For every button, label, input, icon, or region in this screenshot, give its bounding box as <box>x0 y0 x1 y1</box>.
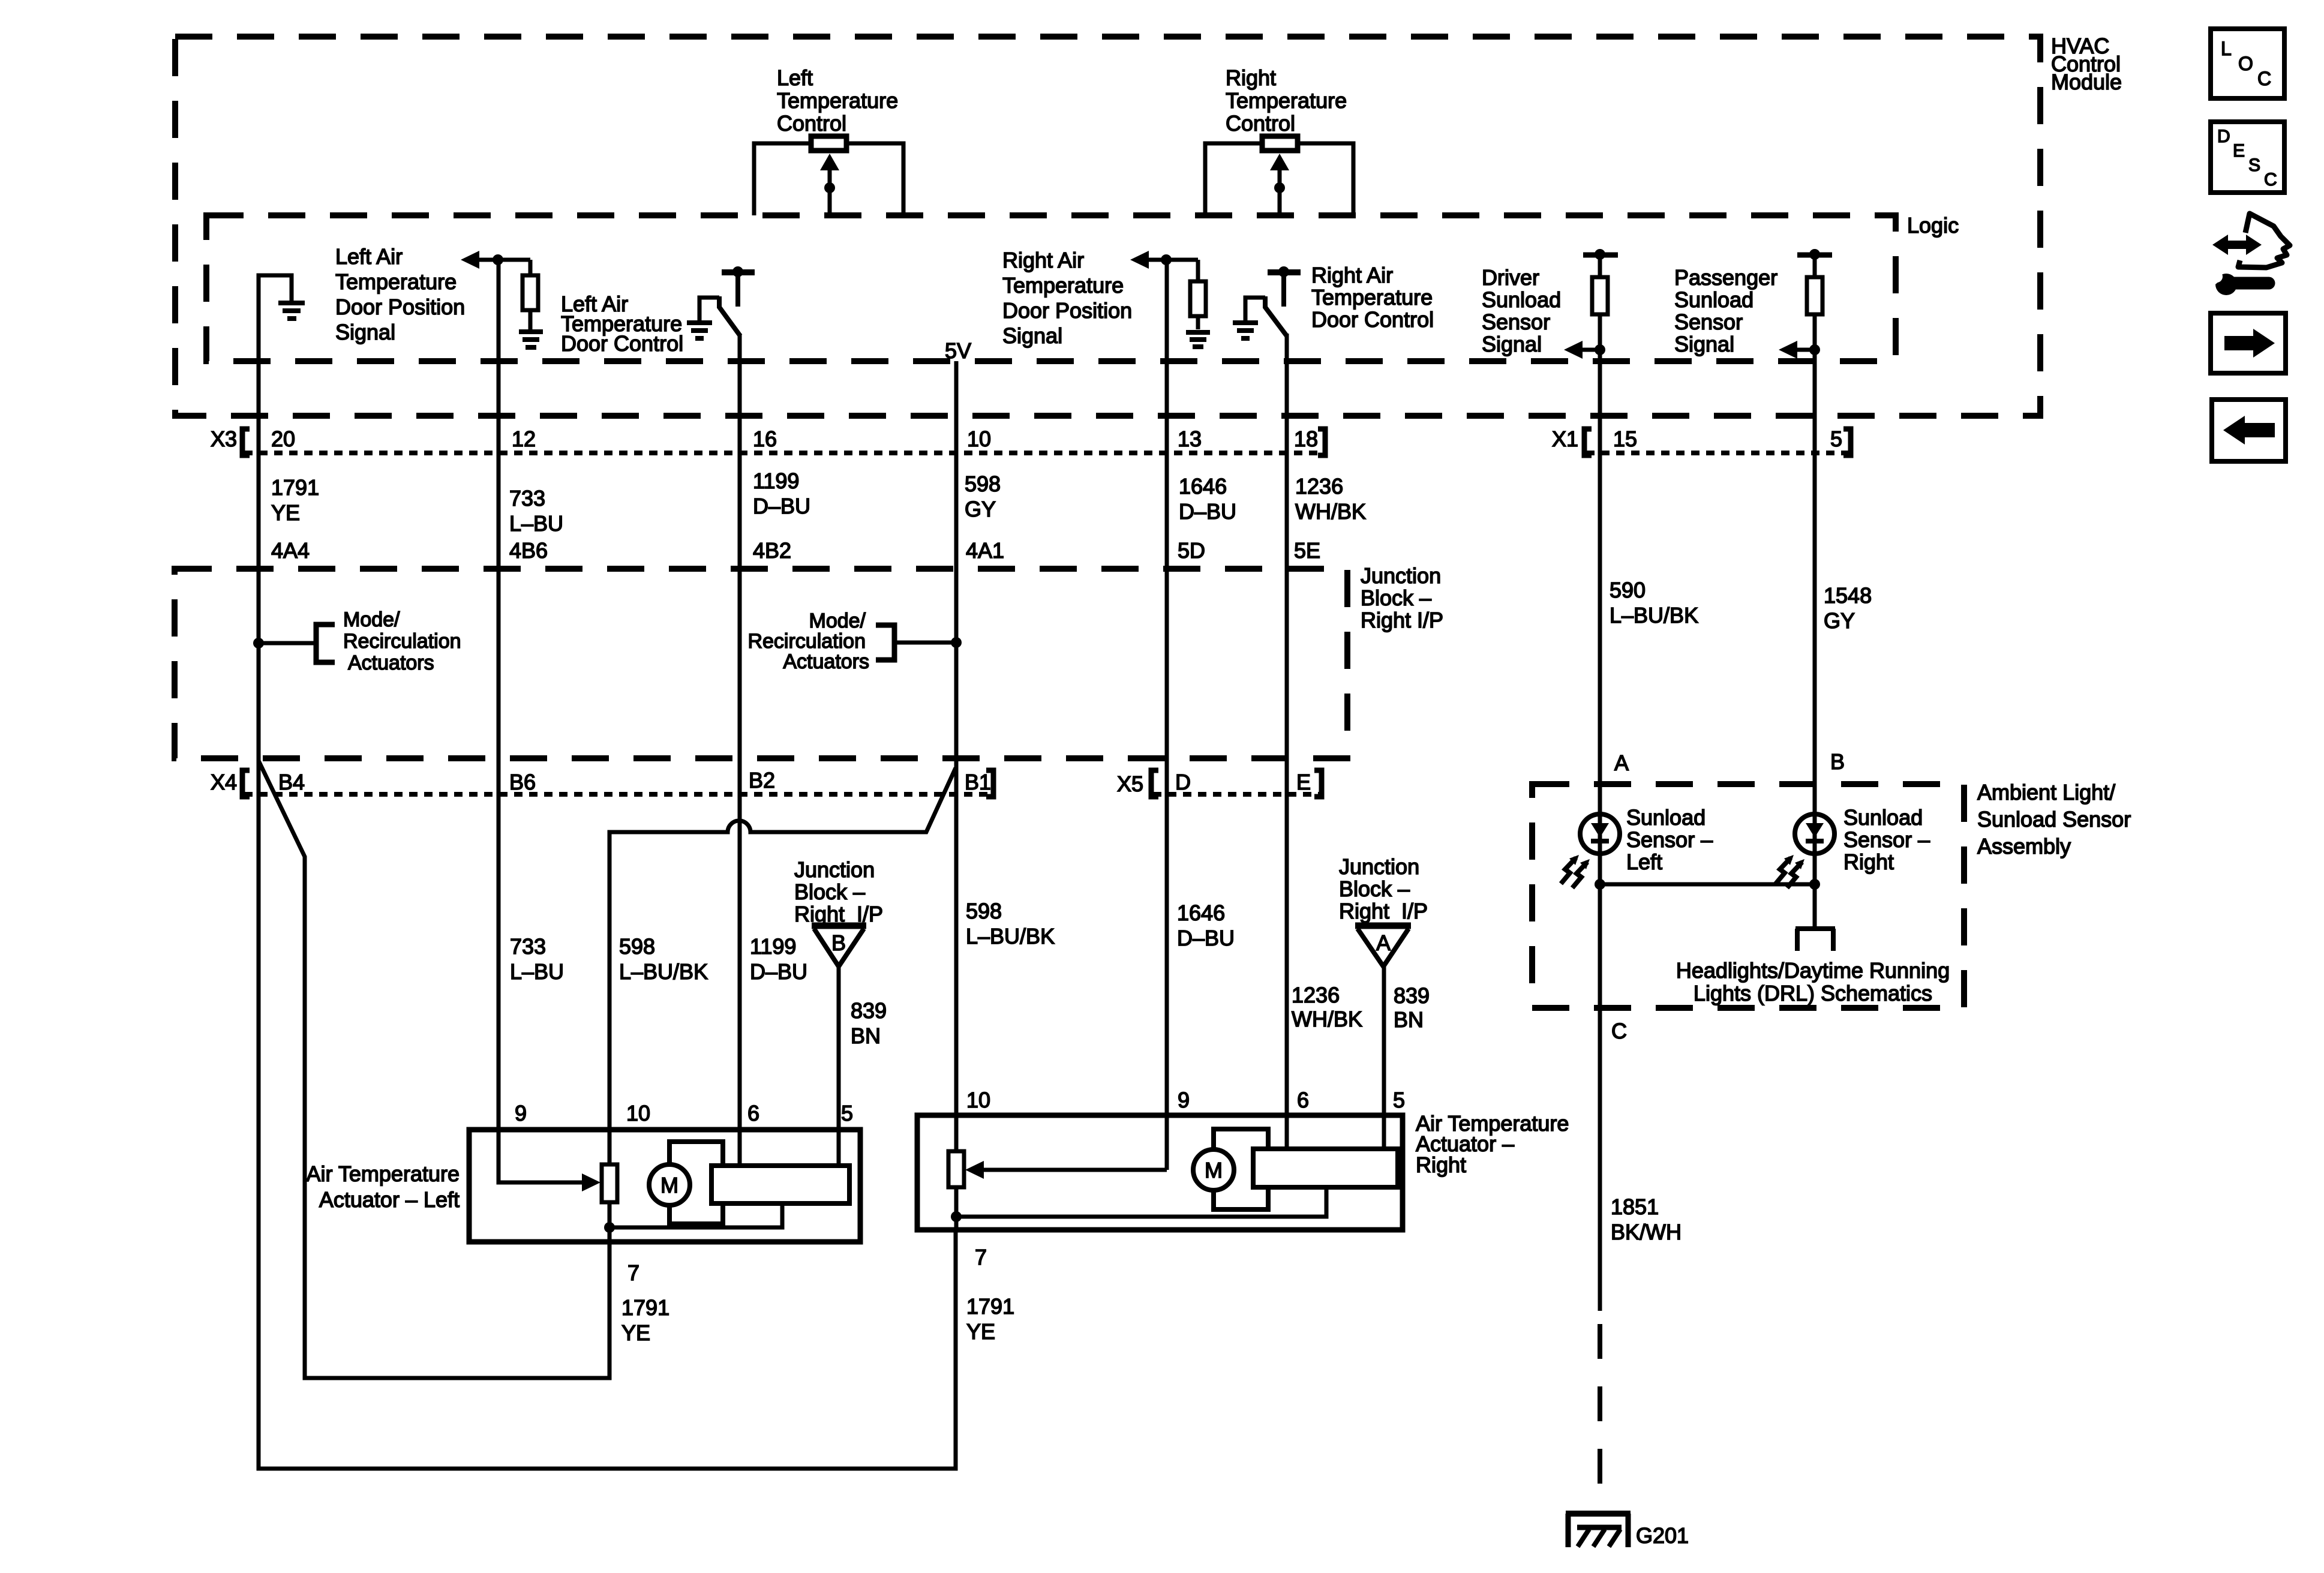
label Logic <box>1907 213 1959 238</box>
wire pin9 feed to wiper arrow <box>499 1130 590 1182</box>
off-page fork to DRL schematics <box>1795 926 1835 931</box>
svg-text:Block –: Block – <box>794 879 865 904</box>
Air Temperature Actuator Right box <box>917 1115 1403 1230</box>
svg-text:1646: 1646 <box>1179 474 1227 499</box>
svg-text:M: M <box>1205 1158 1223 1182</box>
svg-text:C: C <box>1611 1019 1627 1043</box>
svg-text:YE: YE <box>271 500 300 525</box>
wire 1791 YE pin20 to X4 B4 <box>257 361 261 758</box>
svg-text:B: B <box>1830 749 1845 774</box>
wire driver sunload down <box>1598 314 1602 361</box>
pin 16 <box>753 427 777 451</box>
label Junction Block - Right I/P at triangle B <box>794 857 883 926</box>
label Left Air Temperature Door Control <box>561 292 683 356</box>
arrow driver sunload signal <box>1564 341 1583 359</box>
connector X1 dotted line <box>1586 451 1851 455</box>
wire 598 GY 5V pin10 to B1 <box>954 361 959 1151</box>
svg-text:Right: Right <box>1226 65 1276 90</box>
connector X5 right bracket <box>1314 770 1322 797</box>
svg-text:Temperature: Temperature <box>1311 285 1433 310</box>
right actuator pin 9 <box>1178 1088 1190 1112</box>
svg-text:WH/BK: WH/BK <box>1292 1007 1362 1031</box>
label 1791 YE right actuator <box>966 1294 1014 1344</box>
svg-text:1199: 1199 <box>753 469 799 493</box>
wire B4 straight branch to right actuator pin7 <box>259 758 956 1469</box>
node P1 wiper <box>824 182 835 193</box>
wiper arrow P2 <box>1270 154 1289 170</box>
pin B label <box>1830 749 1845 774</box>
svg-text:6: 6 <box>1297 1088 1309 1112</box>
label G201 <box>1636 1523 1689 1548</box>
pin B1 <box>965 770 991 794</box>
icon LOC box <box>2211 29 2284 98</box>
connector X1 left bracket <box>1584 429 1592 455</box>
wire passenger sunload down <box>1813 314 1817 361</box>
svg-text:Block –: Block – <box>1339 876 1410 901</box>
svg-text:B: B <box>831 930 846 955</box>
sunload sensor right photodiode <box>1795 814 1834 854</box>
resistor in left actuator <box>602 1164 617 1202</box>
left actuator pin 9 <box>515 1101 527 1125</box>
svg-text:YE: YE <box>966 1319 995 1344</box>
svg-text:1236: 1236 <box>1295 474 1343 499</box>
svg-text:L–BU/BK: L–BU/BK <box>966 924 1055 948</box>
switch SW2 Right Air Temperature Door Control <box>1268 269 1301 275</box>
ground under R-right-position <box>1186 332 1210 347</box>
wire to left mode bracket <box>259 641 316 646</box>
label Headlights/DRL <box>1676 958 1950 1005</box>
svg-text:Lights (DRL) Schematics: Lights (DRL) Schematics <box>1694 981 1932 1005</box>
arrow into left actuator resistor <box>582 1173 600 1191</box>
svg-text:5E: 5E <box>1294 538 1320 563</box>
connector X1 right bracket <box>1843 429 1851 455</box>
svg-text:D: D <box>1175 770 1191 794</box>
label wire 598 L-BU/BK mid-left <box>619 934 708 984</box>
pin 12 <box>512 427 536 451</box>
label Sunload Sensor - Left <box>1626 805 1713 874</box>
svg-text:O: O <box>2238 53 2253 74</box>
label Junction Block - Right I/P at triangle A <box>1339 854 1428 923</box>
wire pin12 down <box>497 260 501 361</box>
node pin13 <box>1161 254 1172 265</box>
pin 15 <box>1613 427 1637 451</box>
label Driver Sunload Sensor Signal <box>1482 265 1561 356</box>
arrow into right actuator resistor <box>974 1168 1167 1172</box>
svg-text:D–BU: D–BU <box>1179 499 1236 524</box>
pin 20 <box>271 427 295 451</box>
terminal bar passenger sunload <box>1797 253 1832 258</box>
svg-text:BN: BN <box>851 1023 881 1048</box>
svg-text:Junction: Junction <box>794 857 875 882</box>
svg-text:4A1: 4A1 <box>966 538 1004 563</box>
pin C label <box>1611 1019 1627 1043</box>
svg-text:Sunload: Sunload <box>1482 287 1561 312</box>
terminal bar driver sunload <box>1583 253 1618 258</box>
resistor in right actuator <box>948 1151 964 1187</box>
left actuator pin 7 <box>627 1260 639 1285</box>
svg-text:Mode/: Mode/ <box>809 610 866 632</box>
svg-text:M: M <box>660 1173 678 1197</box>
svg-text:10: 10 <box>966 1088 990 1112</box>
wire right mode bracket to 5V wire <box>894 641 956 645</box>
svg-text:B1: B1 <box>965 770 991 794</box>
svg-text:Assembly: Assembly <box>1977 834 2071 858</box>
wire pin13 down <box>1165 260 1169 361</box>
svg-text:Headlights/Daytime Running: Headlights/Daytime Running <box>1676 958 1950 983</box>
ground at SW2 <box>1233 323 1258 338</box>
icon connector view with wrench <box>2238 214 2290 268</box>
potentiometer P2 Right Temperature Control <box>1226 65 1347 136</box>
svg-text:L–BU: L–BU <box>510 959 564 984</box>
svg-text:Right I/P: Right I/P <box>1339 899 1428 923</box>
svg-text:1791: 1791 <box>271 475 319 500</box>
motor M left actuator <box>649 1164 690 1205</box>
connector X3 label <box>211 427 237 451</box>
svg-text:5: 5 <box>841 1101 853 1125</box>
svg-text:D–BU: D–BU <box>750 959 807 984</box>
net 5E <box>1294 538 1320 563</box>
resistor body P1 <box>811 136 846 151</box>
ground at SW1 <box>687 323 712 338</box>
bracket left Mode/Recirculation <box>316 625 335 662</box>
connector X5 dotted line <box>1153 792 1322 797</box>
connector X5 label <box>1117 772 1143 796</box>
svg-text:Ambient Light/: Ambient Light/ <box>1977 780 2115 804</box>
resistor R-passenger-sunload <box>1813 254 1817 277</box>
svg-text:L: L <box>2221 38 2232 59</box>
svg-text:590: 590 <box>1610 578 1646 602</box>
label 839 BN at B <box>851 998 887 1048</box>
switch SW1 Left Air Temperature Door Control <box>722 269 755 275</box>
svg-text:Recirculation: Recirculation <box>343 630 461 653</box>
svg-text:D: D <box>2217 127 2230 146</box>
svg-text:Sunload Sensor: Sunload Sensor <box>1977 807 2131 831</box>
svg-text:Control: Control <box>777 111 846 136</box>
svg-text:B2: B2 <box>749 768 775 792</box>
ground G-left (pin 20 reference) <box>278 303 305 319</box>
arrow Right Air Temp Door Position Signal <box>1130 251 1149 269</box>
icon arrow right box <box>2211 313 2286 373</box>
pin 13 <box>1178 427 1202 451</box>
label wire 733 L-BU mid <box>510 934 564 984</box>
svg-text:13: 13 <box>1178 427 1202 451</box>
svg-text:6: 6 <box>747 1101 759 1125</box>
svg-text:1791: 1791 <box>621 1295 669 1320</box>
label wire 1646 D-BU right <box>1177 900 1235 950</box>
pin E <box>1296 770 1311 794</box>
potentiometer P1 Left Temperature Control <box>777 65 898 136</box>
label 1236 WH/BK at A <box>1292 983 1362 1031</box>
svg-text:B4: B4 <box>278 770 305 794</box>
wire 839 BN from triangle B to left actuator pin5 <box>837 966 841 1166</box>
label wire 1236 WH/BK <box>1295 474 1366 524</box>
wiper tap right actuator <box>954 1187 959 1230</box>
wire P2 left leg <box>1205 143 1262 215</box>
connector X4 label <box>211 770 237 794</box>
svg-text:9: 9 <box>515 1101 527 1125</box>
label Air Temperature Actuator - Left <box>307 1161 460 1212</box>
left actuator pin 10 <box>626 1101 650 1125</box>
svg-text:BK/WH: BK/WH <box>1611 1220 1682 1244</box>
junction block triangle B <box>812 923 866 929</box>
svg-text:Sensor –: Sensor – <box>1843 827 1930 852</box>
label Ambient Light/Sunload Sensor Assembly <box>1977 780 2131 858</box>
svg-text:Door Position: Door Position <box>1002 298 1132 323</box>
svg-text:Left: Left <box>1626 849 1662 874</box>
pin 10 <box>967 427 991 451</box>
svg-text:Door Position: Door Position <box>335 295 465 319</box>
svg-text:GY: GY <box>1824 608 1855 633</box>
svg-text:839: 839 <box>1394 983 1430 1008</box>
svg-text:Right: Right <box>1416 1152 1466 1177</box>
wire joining sensors <box>1600 882 1815 887</box>
label 5V <box>945 338 971 363</box>
svg-text:Signal: Signal <box>335 320 395 344</box>
label Right Air Temperature Door Position Signal <box>1002 248 1132 348</box>
wire 1236 WH/BK pin18 to E <box>1285 361 1289 1149</box>
Junction Block Right I/P dashed box <box>175 569 1347 758</box>
wire 733 L-BU pin12 to B6 <box>497 361 501 1130</box>
svg-text:1236: 1236 <box>1292 983 1340 1007</box>
motor loop left actuator <box>669 1142 723 1224</box>
svg-text:4A4: 4A4 <box>271 538 310 563</box>
svg-text:5V: 5V <box>945 338 971 363</box>
svg-text:598: 598 <box>966 899 1002 923</box>
net 4B6 <box>509 538 548 563</box>
Logic inner dashed box <box>206 215 1896 361</box>
resistor R-driver-sunload <box>1598 254 1602 277</box>
pin B4 <box>278 770 305 794</box>
svg-text:Left Air: Left Air <box>335 244 403 269</box>
svg-text:598: 598 <box>965 472 1001 496</box>
svg-text:Sunload: Sunload <box>1843 805 1923 830</box>
svg-text:Sensor: Sensor <box>1482 310 1550 334</box>
svg-text:Right Air: Right Air <box>1002 248 1084 272</box>
svg-text:YE: YE <box>621 1320 650 1345</box>
wire 1199 D-BU pin16 to B2 and left actuator pin6 <box>738 361 742 1166</box>
label 590 L-BU/BK <box>1610 578 1698 628</box>
svg-text:D–BU: D–BU <box>753 494 810 518</box>
svg-text:1199: 1199 <box>750 934 796 959</box>
svg-text:7: 7 <box>975 1245 987 1269</box>
light arrows right sensor <box>1776 858 1791 884</box>
resistor body P2 <box>1262 136 1298 151</box>
svg-text:BN: BN <box>1394 1007 1424 1032</box>
svg-text:10: 10 <box>626 1101 650 1125</box>
label wire 1199 D-BU mid <box>750 934 807 984</box>
svg-text:A: A <box>1376 930 1391 955</box>
wire 1851 BK/WH dashed off-page <box>1598 1324 1602 1511</box>
svg-text:X4: X4 <box>211 770 237 794</box>
svg-text:Sensor –: Sensor – <box>1626 827 1713 852</box>
label Right Air Temperature Door Control <box>1311 263 1434 332</box>
motor loop right actuator <box>1214 1129 1268 1209</box>
net 4B2 <box>753 538 791 563</box>
connector X3 right bracket <box>1318 429 1325 455</box>
svg-text:S: S <box>2248 155 2260 175</box>
label Mode/Recirculation Actuators left <box>343 608 461 674</box>
wire P1 right leg <box>846 143 903 215</box>
wire wiper crossover with hump <box>609 768 956 1164</box>
connector X5 left bracket <box>1151 770 1158 797</box>
motor M right actuator <box>1193 1149 1234 1190</box>
label Passenger Sunload Sensor Signal <box>1674 265 1777 356</box>
pin B6 <box>509 770 536 794</box>
svg-text:Temperature: Temperature <box>1002 273 1124 298</box>
label 1851 BK/WH <box>1611 1194 1682 1244</box>
svg-text:Door Control: Door Control <box>1311 307 1434 332</box>
svg-text:Logic: Logic <box>1907 213 1959 238</box>
svg-text:A: A <box>1614 751 1629 775</box>
svg-text:Recirculation: Recirculation <box>747 630 866 653</box>
right actuator pin 6 <box>1297 1088 1309 1112</box>
right actuator pin 10 <box>966 1088 990 1112</box>
svg-text:5: 5 <box>1393 1088 1405 1112</box>
svg-text:D–BU: D–BU <box>1177 926 1235 950</box>
svg-text:Right I/P: Right I/P <box>1361 608 1443 632</box>
net 5D <box>1178 538 1205 563</box>
label wire 1646 D-BU <box>1179 474 1236 524</box>
connector X4 right bracket <box>986 770 993 797</box>
svg-text:G201: G201 <box>1636 1523 1689 1548</box>
svg-text:WH/BK: WH/BK <box>1295 499 1366 524</box>
label Left Air Temperature Door Position Signal <box>335 244 465 344</box>
svg-text:Sunload: Sunload <box>1674 287 1753 312</box>
node left sensor out <box>1595 879 1605 890</box>
label wire 598 L-BU/BK right <box>966 899 1055 948</box>
label 1791 YE left actuator <box>621 1295 669 1345</box>
pin 18 <box>1294 427 1318 451</box>
wire P2 right leg <box>1298 143 1353 215</box>
wire pin20 riser to ground <box>259 275 292 361</box>
svg-text:X3: X3 <box>211 427 237 451</box>
feedback plate left actuator <box>711 1166 849 1203</box>
right actuator pin 7 <box>975 1245 987 1269</box>
svg-text:E: E <box>1296 770 1311 794</box>
svg-text:Air Temperature: Air Temperature <box>307 1161 460 1186</box>
svg-text:598: 598 <box>619 934 655 959</box>
svg-text:Junction: Junction <box>1339 854 1419 879</box>
svg-text:Door Control: Door Control <box>561 331 683 356</box>
svg-text:Module: Module <box>2051 70 2122 94</box>
connector X3 left bracket <box>242 429 250 455</box>
svg-text:Actuators: Actuators <box>348 652 434 674</box>
arrow passenger sunload signal <box>1779 341 1797 359</box>
resistor R-right-position <box>1196 260 1200 281</box>
ground under R-left-position <box>519 332 543 347</box>
svg-text:9: 9 <box>1178 1088 1190 1112</box>
svg-text:Block –: Block – <box>1361 586 1431 610</box>
light arrows left sensor <box>1561 858 1576 884</box>
svg-text:1548: 1548 <box>1824 583 1872 608</box>
svg-text:Temperature: Temperature <box>1226 88 1347 113</box>
svg-text:Junction: Junction <box>1361 563 1441 588</box>
svg-text:Actuator – Left: Actuator – Left <box>319 1187 460 1212</box>
pin A label <box>1614 751 1629 775</box>
svg-text:733: 733 <box>510 934 546 959</box>
svg-text:18: 18 <box>1294 427 1318 451</box>
Ambient Light Sunload Sensor Assembly dashed box <box>1532 784 1964 1008</box>
svg-text:16: 16 <box>753 427 777 451</box>
HVAC Control Module outer dashed box <box>175 37 2040 416</box>
label Air Temperature Actuator - Right <box>1416 1111 1569 1177</box>
svg-text:L–BU: L–BU <box>509 511 563 536</box>
svg-text:4B2: 4B2 <box>753 538 791 563</box>
svg-text:GY: GY <box>965 497 996 521</box>
svg-text:5: 5 <box>1830 427 1842 451</box>
wire B4 diagonal branch to left actuator pin7 <box>259 761 609 1378</box>
node right sensor out <box>1809 879 1820 890</box>
connector X4 left bracket <box>242 770 250 797</box>
label Mode/Recirculation Actuators right <box>747 610 869 673</box>
wire P1 left leg <box>754 143 811 215</box>
left actuator pin 5 <box>841 1101 853 1125</box>
svg-text:Passenger: Passenger <box>1674 265 1777 290</box>
wiper tap left actuator <box>608 1202 612 1242</box>
svg-text:Signal: Signal <box>1482 332 1542 356</box>
svg-text:L–BU/BK: L–BU/BK <box>619 959 708 984</box>
left actuator pin 6 <box>747 1101 759 1125</box>
connector X3 dotted line <box>244 451 1325 455</box>
svg-text:B6: B6 <box>509 770 536 794</box>
wire 1646 D-BU pin13 to D <box>1165 361 1169 1170</box>
svg-text:X1: X1 <box>1552 427 1578 451</box>
svg-text:Temperature: Temperature <box>335 269 457 294</box>
svg-text:4B6: 4B6 <box>509 538 548 563</box>
label wire 598 GY <box>965 472 1001 521</box>
wire 1548 GY passenger sunload <box>1813 361 1817 927</box>
wiper arrow P1 <box>820 154 839 170</box>
node pin12 <box>493 254 503 265</box>
sunload sensor left photodiode <box>1580 814 1620 854</box>
svg-text:7: 7 <box>627 1260 639 1285</box>
icon DESC box <box>2211 122 2284 193</box>
svg-text:Sunload: Sunload <box>1626 805 1706 830</box>
svg-text:Right Air: Right Air <box>1311 263 1393 287</box>
svg-text:X5: X5 <box>1117 772 1143 796</box>
svg-text:Control: Control <box>1226 111 1295 136</box>
pin D <box>1175 770 1191 794</box>
svg-text:12: 12 <box>512 427 536 451</box>
bracket right Mode/Recirculation <box>876 625 894 660</box>
svg-text:Mode/: Mode/ <box>343 608 400 631</box>
node P2 wiper <box>1274 182 1285 193</box>
connector X4 dotted line <box>244 792 993 797</box>
svg-text:E: E <box>2233 141 2245 161</box>
label wire 1791 YE <box>271 475 319 525</box>
svg-text:C: C <box>2257 68 2271 89</box>
svg-text:1851: 1851 <box>1611 1194 1659 1219</box>
label 1548 GY <box>1824 583 1872 633</box>
svg-text:C: C <box>2264 170 2277 190</box>
svg-text:Signal: Signal <box>1002 323 1062 348</box>
svg-text:839: 839 <box>851 998 887 1023</box>
pin B2 <box>749 768 775 792</box>
svg-text:Driver: Driver <box>1482 265 1539 290</box>
svg-text:15: 15 <box>1613 427 1637 451</box>
svg-text:Actuators: Actuators <box>783 650 869 673</box>
wire 590 L-BU/BK driver sunload <box>1598 361 1602 1311</box>
svg-text:Signal: Signal <box>1674 332 1734 356</box>
right actuator pin 5 <box>1393 1088 1405 1112</box>
wire 839 BN from triangle A to right actuator pin5 <box>1382 966 1386 1149</box>
svg-text:1791: 1791 <box>966 1294 1014 1319</box>
net 4A1 <box>966 538 1004 563</box>
pin 5 X1 <box>1830 427 1842 451</box>
icon arrow left box <box>2212 400 2286 461</box>
Air Temperature Actuator Left box <box>469 1130 860 1242</box>
svg-text:Right: Right <box>1843 849 1894 874</box>
